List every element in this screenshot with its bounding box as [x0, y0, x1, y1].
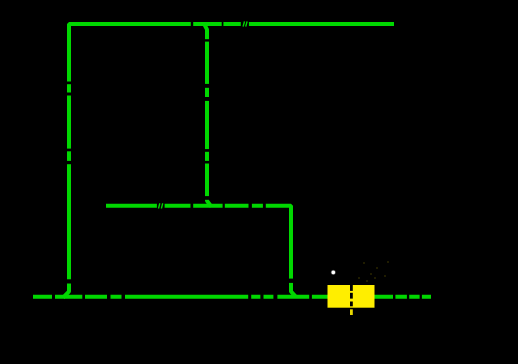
wire W2 dash gaps (middle vertical)	[204, 39, 210, 200]
fuse S1: highlighted yellow component box	[328, 285, 375, 308]
node marker: white locator dot above fuse	[332, 271, 336, 275]
connector tick marks T1 on top rail	[243, 21, 247, 26]
label remnant: faint dark designator text above fuse	[358, 261, 389, 282]
fuse S1 internal dashed separator line	[350, 285, 353, 306]
wire W3 dash gaps (middle rail)	[157, 203, 295, 283]
wire W2: middle vertical branch from top rail down to mid rail	[204, 24, 211, 207]
fuse S1 separator dash below box (yellow on black)	[350, 309, 353, 315]
wire W4 dash gaps (bottom rail)	[52, 294, 422, 300]
wire W4: bottom horizontal rail	[33, 295, 431, 299]
wire W1 dash gaps (top rail)	[191, 21, 249, 27]
wire W1 dash gaps (left vertical)	[66, 82, 72, 284]
wire W1: top horizontal rail with left vertical branch (highlighted green)	[63, 24, 394, 298]
wire W3: middle horizontal rail with right vertical drop	[106, 206, 296, 297]
connector tick marks T2 on middle rail	[159, 203, 163, 208]
